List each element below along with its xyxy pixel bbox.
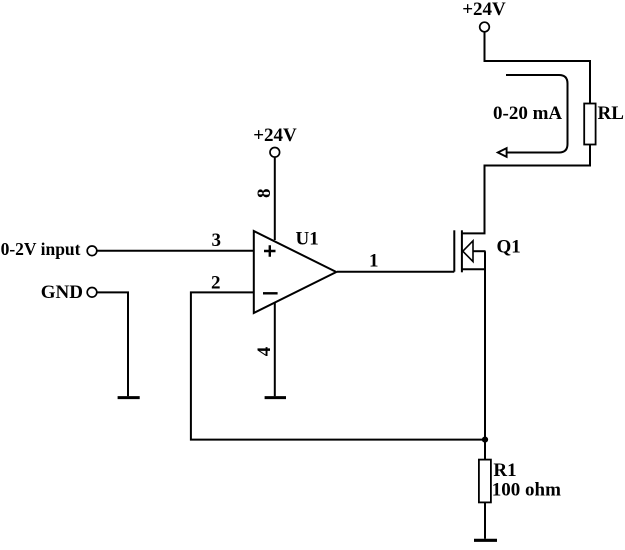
svg-text:0-2V input: 0-2V input (1, 239, 81, 259)
resistor R1 (479, 460, 491, 503)
svg-text:1: 1 (369, 251, 379, 272)
wire: RL bottom left down to MOSFET drain (485, 145, 591, 235)
junction node (feedback tap) (482, 437, 488, 443)
svg-text:RL: RL (598, 103, 624, 124)
node +24V (top right) terminal circle (480, 22, 490, 32)
svg-text:8: 8 (254, 188, 275, 198)
input terminal GND circle (87, 288, 97, 298)
wire: op-amp pin 8 supply (274, 158, 276, 240)
op-amp U1 plus (non-inverting) symbol (264, 245, 276, 256)
svg-text:100 ohm: 100 ohm (492, 480, 561, 501)
op-amp U1 triangle (254, 231, 336, 313)
wire: MOSFET source down to R1 (484, 251, 486, 459)
wire: op-amp pin 4 to ground (274, 303, 276, 397)
svg-text:4: 4 (254, 346, 275, 356)
svg-text:R1: R1 (493, 460, 516, 481)
transistor Q1 body stub (473, 250, 486, 252)
ground (op-amp pin 4) (265, 396, 286, 399)
transistor Q1 drain stub (462, 232, 486, 234)
wire: feedback from R1 junction to op-amp pin 2 (191, 292, 485, 439)
resistor RL (584, 104, 595, 145)
svg-text:0-20 mA: 0-20 mA (493, 103, 562, 124)
wire: R1 bottom to ground (484, 502, 486, 538)
svg-text:+24V: +24V (253, 125, 297, 146)
svg-text:3: 3 (212, 230, 222, 251)
svg-text:Q1: Q1 (497, 237, 521, 258)
current loop arrow (0-20 mA) (506, 75, 568, 153)
wire: 0-2V input to op-amp pin 3 (97, 250, 253, 252)
wire: +24V terminal down, right, down to RL top (485, 32, 591, 104)
svg-text:U1: U1 (296, 229, 319, 250)
transistor Q1 body arrow (463, 241, 473, 262)
svg-text:2: 2 (211, 272, 221, 293)
svg-text:GND: GND (41, 282, 83, 303)
wire: op-amp output pin 1 to MOSFET gate (337, 271, 454, 273)
ground (R1 bottom) (474, 539, 497, 542)
ground (GND input) (118, 396, 140, 399)
transistor Q1 gate bar (453, 230, 455, 271)
input terminal 0-2V circle (87, 246, 97, 256)
transistor Q1 channel bar (461, 230, 463, 272)
current loop arrowhead (498, 148, 507, 157)
op-amp U1 minus (inverting) symbol (263, 292, 278, 294)
svg-text:+24V: +24V (462, 0, 506, 20)
transistor Q1 source stub (462, 268, 486, 270)
wire: GND terminal to ground symbol (97, 292, 128, 396)
node +24V (op-amp supply) terminal circle (270, 148, 280, 158)
